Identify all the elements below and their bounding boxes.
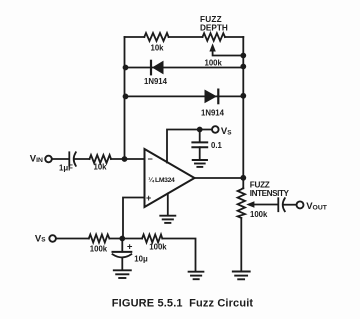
ground (op-amp) xyxy=(160,216,175,223)
wire right bus vertical xyxy=(242,37,244,188)
wire op-amp ground stem xyxy=(167,194,169,216)
terminal VOUT circle xyxy=(297,201,304,208)
capacitor C1 1uF xyxy=(69,152,76,166)
wire R3 to node xyxy=(109,238,142,240)
wire C1 to R1 xyxy=(74,158,89,160)
wire diode D1 row xyxy=(125,67,244,69)
terminal VIN circle xyxy=(45,156,52,163)
node dot wiper to right bus xyxy=(240,53,246,59)
svg-text:¼ LM324: ¼ LM324 xyxy=(148,176,175,184)
wire pot bottom to ground xyxy=(240,218,242,271)
wire pot right end to right bus corner xyxy=(225,36,243,38)
svg-text:−: − xyxy=(148,154,153,164)
svg-text:+: + xyxy=(146,193,151,203)
wire non-inverting input elbow xyxy=(123,198,145,239)
wire op-amp V+ to Vs xyxy=(167,130,212,163)
capacitor 10u electrolytic xyxy=(113,239,132,270)
diode D2 1N914 (pointing right) xyxy=(205,90,219,104)
wire R4 to ground elbow xyxy=(162,239,195,272)
svg-text:100k: 100k xyxy=(250,210,268,219)
node dot D1 right xyxy=(240,64,246,70)
resistor R4 100k (bias lower) xyxy=(142,235,162,243)
node dot Vs bypass xyxy=(197,127,203,133)
svg-text:INTENSITY: INTENSITY xyxy=(250,189,290,198)
node dot bias xyxy=(119,236,125,242)
svg-text:10k: 10k xyxy=(94,162,108,171)
wiper arrow of FUZZ DEPTH pot xyxy=(209,43,243,55)
wire C2 to VOUT xyxy=(284,204,297,206)
svg-text:FUZZ: FUZZ xyxy=(250,180,270,189)
wire top feedback line xyxy=(125,36,145,38)
svg-text:10μ: 10μ xyxy=(134,254,148,263)
svg-text:VS: VS xyxy=(221,126,232,137)
capacitor 0.1 bypass xyxy=(192,130,207,159)
svg-text:1μF: 1μF xyxy=(59,163,73,172)
svg-text:FUZZ: FUZZ xyxy=(200,15,222,24)
diode D1 1N914 (pointing left) xyxy=(151,61,164,75)
wire VIN to C1 xyxy=(52,158,68,160)
wire diode D2 row xyxy=(125,95,244,97)
svg-text:DEPTH: DEPTH xyxy=(200,24,228,33)
resistor R1 10k (input) xyxy=(90,155,112,163)
label FUZZ INTENSITY xyxy=(250,180,290,198)
ground (intensity pot) xyxy=(233,272,250,280)
node dot D1 left xyxy=(123,65,129,71)
resistor R3 100k (bias upper) xyxy=(89,235,110,243)
node dot output xyxy=(240,175,246,181)
svg-text:FIGURE 5.5.1 Fuzz Circuit: FIGURE 5.5.1 Fuzz Circuit xyxy=(112,297,254,309)
wire left bus vertical xyxy=(124,37,126,159)
svg-text:10k: 10k xyxy=(151,44,165,53)
wire between 10k and pot xyxy=(169,36,203,38)
ground (0.1 cap) xyxy=(193,160,207,167)
svg-text:VOUT: VOUT xyxy=(306,201,328,212)
wiper arrow of FUZZ INTENSITY pot xyxy=(246,201,277,207)
terminal Vs circle xyxy=(212,126,219,133)
svg-text:1N914: 1N914 xyxy=(144,77,168,86)
wire op-amp output to right bus xyxy=(195,177,244,179)
terminal VS (bottom) circle xyxy=(49,235,56,242)
svg-text:0.1: 0.1 xyxy=(211,141,223,150)
op-amp U1 1/4 LM324 triangle xyxy=(145,149,195,207)
ground (bias divider) xyxy=(189,272,204,280)
svg-text:VS: VS xyxy=(35,233,46,244)
svg-text:100k: 100k xyxy=(90,245,108,254)
svg-text:+: + xyxy=(127,242,133,253)
node dot D2 left xyxy=(123,94,129,100)
potentiometer FUZZ INTENSITY 100k body (vertical) xyxy=(238,188,245,218)
wire R1 to inverting input xyxy=(111,158,145,160)
svg-text:1N914: 1N914 xyxy=(201,109,225,118)
label FUZZ DEPTH xyxy=(200,15,228,33)
resistor 10k (feedback) xyxy=(144,33,168,41)
wire VS to R3 xyxy=(56,238,89,240)
node dot D2 right xyxy=(240,93,246,99)
ground (10u cap) xyxy=(114,270,131,278)
capacitor C2 output coupling xyxy=(278,198,285,211)
svg-text:VIN: VIN xyxy=(30,154,43,165)
svg-text:100k: 100k xyxy=(149,242,167,251)
node dot inverting input xyxy=(122,156,128,162)
svg-text:100k: 100k xyxy=(205,58,223,67)
potentiometer FUZZ DEPTH 100k body xyxy=(203,33,226,41)
